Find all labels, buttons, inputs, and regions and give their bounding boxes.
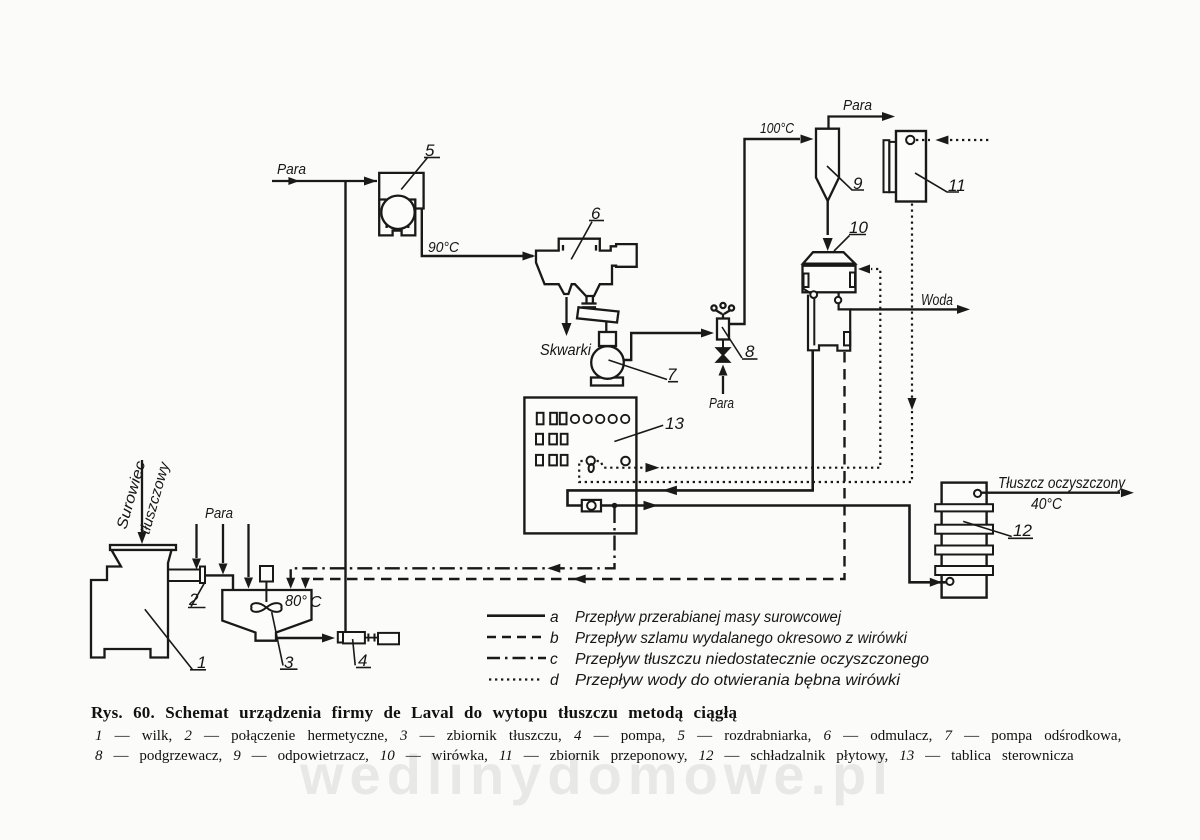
steam valve under heater 8 — [717, 340, 730, 363]
stirrer propeller in tank 3 — [251, 603, 281, 612]
arrowhead on sludge line (leftwards) — [573, 575, 586, 584]
label 9 with leader — [827, 166, 864, 193]
label 13 with leader — [614, 414, 684, 442]
arrowhead water into centrifuge 10 — [858, 265, 870, 274]
svg-text:1: 1 — [197, 653, 206, 672]
label 10 with leader — [834, 218, 868, 251]
grinder 1 (wilk) hopper flange — [110, 545, 176, 550]
node Para label under heater 8 — [709, 395, 734, 412]
watermark — [300, 742, 1020, 807]
svg-text:C: C — [310, 594, 322, 611]
svg-text:3: 3 — [284, 653, 294, 672]
wire 90C line from shredder 5 to desludger 6 — [422, 209, 536, 261]
wire drop line 9 to centrifuge 10 — [823, 201, 833, 251]
arrowhead recycle line into tank 3 — [286, 578, 295, 589]
deaerator 9 (odpowietrzacz) cyclone — [816, 129, 839, 201]
centrifuge 10 lower frame and feet — [803, 289, 850, 351]
svg-text:d: d — [550, 672, 560, 689]
svg-text:Tłuszcz oczyszczony: Tłuszcz oczyszczony — [998, 475, 1126, 492]
legend line a sample (solid) — [487, 614, 545, 617]
tank 3 (zbiornik tluszczu) body — [222, 590, 311, 641]
arrowhead into panel (leftwards) — [662, 486, 677, 496]
label 12 with leader — [963, 521, 1033, 540]
svg-text:Para: Para — [843, 97, 872, 114]
centrifuge 10 (wirowka) lid — [803, 252, 855, 266]
legend line c sample (dash-dot) — [487, 657, 546, 659]
wire Woda outlet from centrifuge 10 — [850, 305, 970, 314]
plate cooler 12 (schladzalnik plytowy) body — [942, 483, 987, 598]
legend text labels — [550, 609, 929, 689]
svg-text:90°C: 90°C — [428, 239, 459, 256]
shredder 5 (rozdrabniarka) body — [379, 173, 423, 236]
centrifugal pump 7 casing circle — [591, 346, 624, 379]
node Para label above tank 3 — [205, 505, 233, 522]
svg-text:2: 2 — [188, 590, 199, 609]
panel 13 toggle switch (water valve) — [587, 457, 595, 473]
connection 2 hermetic flange — [200, 567, 205, 584]
legend line b sample (dashed) — [487, 636, 545, 638]
node Woda label — [921, 292, 953, 309]
panel 13 indicator rectangles row 1 — [537, 413, 567, 425]
svg-text:Przepływ wody do otwierania bę: Przepływ wody do otwierania bębna wirówk… — [575, 672, 901, 689]
wire product line from centrifuge 10 through panel 13 to cooler 12 — [568, 350, 947, 582]
plate cooler 12 ports — [946, 490, 981, 585]
svg-text:8: 8 — [745, 342, 755, 361]
label 1 with leader — [145, 609, 207, 672]
arrowhead out of panel toward cooler (rightwards) — [644, 501, 659, 510]
wire Tluszcz oczyszczony outlet arrow — [981, 488, 1134, 497]
svg-text:Przepływ tłuszczu niedostatecz: Przepływ tłuszczu niedostatecznie oczysz… — [575, 651, 929, 668]
svg-text:c: c — [550, 651, 558, 668]
diaphragm tank 11 (zbiornik przeponowy) — [884, 131, 927, 202]
node 100C temperature label — [760, 120, 794, 137]
svg-text:4: 4 — [358, 651, 367, 670]
arrowhead into cooler 12 bottom port — [930, 578, 942, 587]
node Surowiec tluszczowy feed label (rotated) — [114, 459, 174, 537]
junction node on product line — [612, 503, 618, 509]
wire dotted water supply into tank 11 — [916, 139, 989, 141]
wire sludge dashed line b from centrifuge 10 to tank 3 — [305, 352, 844, 583]
label 4 with leader — [353, 639, 371, 670]
svg-text:Para: Para — [205, 505, 233, 522]
label 2 with leader — [188, 583, 206, 609]
wire recycle dash-dot line c from junction to tank 3 — [291, 508, 615, 582]
svg-text:10: 10 — [849, 218, 868, 237]
centrifugal pump 7 base — [591, 378, 623, 386]
skwarki outlet arrow from 6 — [562, 297, 572, 336]
arrowhead water line downwards — [908, 398, 917, 410]
arrowhead water into tank 11 — [935, 136, 948, 145]
svg-text:a: a — [550, 609, 559, 626]
svg-text:11: 11 — [948, 176, 966, 195]
centrifugal pump 7 motor block — [599, 332, 616, 346]
desludger 6 (odmulacz) body — [536, 239, 637, 296]
label 7 with leader — [609, 360, 679, 384]
node 40C temperature label — [1031, 496, 1062, 513]
panel 13 indicator rectangles row 2 — [536, 434, 568, 445]
svg-text:80°: 80° — [285, 593, 308, 610]
svg-text:Para: Para — [277, 161, 306, 178]
svg-text:40°C: 40°C — [1031, 496, 1062, 513]
svg-text:7: 7 — [667, 365, 677, 384]
funnel B stem and flange under 6 — [581, 296, 596, 307]
steam arrow onto flange 2 — [192, 524, 201, 570]
svg-text:9: 9 — [853, 174, 863, 193]
caption key line 2 — [95, 748, 1195, 765]
node Tluszcz oczyszczony label — [998, 475, 1126, 492]
label 8 with leader — [722, 327, 758, 361]
wire steam vent from 9 with Para arrow — [829, 112, 896, 129]
wire dotted water from toggle to centrifuge 10 — [597, 269, 881, 468]
wire pump 7 discharge to heater 8 — [624, 329, 714, 361]
svg-text:13: 13 — [665, 414, 684, 433]
wire tank 3 outlet to pump 4 — [276, 634, 335, 643]
label 11 with leader — [915, 173, 966, 195]
steam arrow onto pipe after flange 2 — [219, 524, 228, 575]
grinder 1 body — [91, 550, 172, 658]
node Para label at vent of 9 — [843, 97, 872, 114]
stirrer motor on tank 3 — [260, 566, 273, 602]
svg-text:Woda: Woda — [921, 292, 953, 309]
tilted chute box from 6 to pump 7 — [577, 307, 619, 332]
wire raw material arrow into grinder 1 — [138, 460, 147, 544]
node Skwarki label — [540, 342, 591, 359]
node 90C temperature label — [428, 239, 459, 256]
label 6 with leader — [571, 204, 604, 259]
caption title — [91, 703, 751, 723]
panel 13 round indicator near toggle — [621, 457, 630, 466]
arrowhead sludge line into tank 3 — [301, 578, 310, 589]
centrifuge 10 main body — [803, 266, 856, 293]
node 80C temperature label in tank 3 — [285, 593, 322, 611]
steam arrow into tank 3 — [244, 524, 253, 589]
svg-text:6: 6 — [591, 204, 601, 223]
wire product riser from pump 4 up to steam junction — [344, 181, 346, 632]
pump 4 (pompa) body — [338, 632, 399, 644]
svg-text:100°C: 100°C — [760, 120, 794, 137]
arrowhead on recycle line (leftwards) — [547, 564, 560, 573]
node Para steam inlet label (top left) — [277, 161, 306, 178]
connection 2: outlet pipe of grinder — [168, 570, 200, 582]
wire steam line into shredder 5 — [272, 177, 377, 186]
svg-text:12: 12 — [1013, 521, 1032, 540]
wire pipe from flange 2 to tank 3 — [205, 575, 233, 589]
svg-text:5: 5 — [425, 141, 435, 160]
svg-text:Przepływ przerabianej masy sur: Przepływ przerabianej masy surowcowej — [575, 609, 842, 626]
label 5 with leader — [401, 141, 440, 190]
caption key line 1 — [95, 728, 1195, 745]
arrowhead water toward centrifuge (rightwards mid-run) — [646, 463, 660, 473]
svg-text:Para: Para — [709, 395, 734, 412]
svg-text:Przepływ szlamu wydalanego okr: Przepływ szlamu wydalanego okresowo z wi… — [575, 630, 908, 647]
wire heater 8 to deaerator 9 riser — [729, 135, 814, 325]
wire dotted water from tank 11 down and to panel 13 — [579, 204, 912, 483]
heater 8 (podgrzewacz) body — [711, 303, 734, 340]
label 3 with leader — [272, 612, 298, 672]
plate cooler 12 plates — [935, 504, 993, 575]
flow meter box on panel line — [582, 500, 601, 512]
legend line d sample (dotted) — [489, 678, 543, 680]
svg-text:b: b — [550, 630, 559, 647]
control panel 13 (tablica sterownicza) cabinet — [524, 398, 636, 534]
svg-text:Skwarki: Skwarki — [540, 342, 591, 359]
steam arrow Para into valve of 8 — [719, 365, 728, 395]
panel 13 indicator rectangles row 3 — [536, 455, 568, 466]
panel 13 indicator lamps row — [571, 415, 630, 423]
